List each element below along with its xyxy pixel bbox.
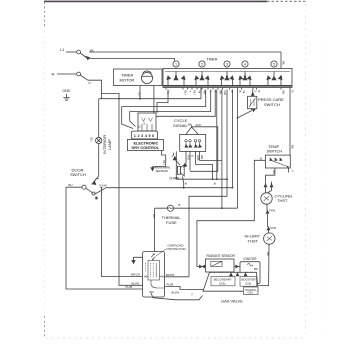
gas valve connector arrows [230,273,247,276]
svg-text:BU: BU [137,93,141,97]
svg-text:LAMP: LAMP [107,139,112,150]
svg-text:RADIANT SENSOR: RADIANT SENSOR [207,254,236,258]
ELECTRONIC DRY CONTROL box [127,140,163,151]
moisture sensor arrow [152,167,154,169]
chime switch blade [174,159,180,166]
svg-text:ACK: ACK [196,123,202,127]
N switch blade [80,75,88,80]
svg-text:BK: BK [218,91,222,95]
svg-text:SIGNAL: SIGNAL [173,123,188,128]
door switch NO contact arrow up [92,181,96,185]
svg-text:5M: 5M [150,290,155,294]
wire motor right lead y276.8 to x189 [165,276,190,278]
node L1 input wire [66,51,77,53]
timer contact group 3 [221,72,234,86]
svg-text:BU/W: BU/W [172,290,180,294]
svg-text:ELECTRONIC: ELECTRONIC [134,141,159,145]
svg-text:4M: 4M [161,277,164,279]
timer terminal circle 1 [173,61,179,67]
wire radiant sensor left lead with connectors [197,266,206,268]
wire lamp drop x98.7 [95,99,99,181]
svg-text:N: N [89,81,91,85]
svg-text:CHIME: CHIME [169,177,180,181]
chime speaker symbol [177,166,180,174]
svg-text:COIL: COIL [248,292,254,295]
svg-text:BK: BK [254,267,258,271]
svg-text:BK: BK [281,91,285,95]
svg-text:THST: THST [277,198,288,203]
cycle signal contacts inside [185,140,202,148]
svg-text:BU: BU [69,183,73,187]
wire L1 drop to timer contact 5 [280,52,282,74]
wire neutral vertical x101.5 upper stub [101,94,103,100]
wire press care bottom to x237.5 [238,109,253,118]
timer terminal circle 2 [199,61,205,67]
junction x119 on N rail [118,98,120,100]
timer contact group 1 [167,72,185,86]
wire cycling to hi-limit [267,204,269,233]
wire lower contact to y187.7 [95,188,106,194]
svg-text:OR: OR [200,155,204,159]
svg-text:PROTECTOR: PROTECTOR [168,247,186,251]
timer contact assembly box [163,69,292,88]
svg-text:DRY CONTROL: DRY CONTROL [132,146,160,150]
gas valve coil assembly outline [203,272,258,291]
wire radiant sensor right to igniter [234,266,240,268]
wire L1 lower throw y58 to timer terminal 1 [90,59,175,61]
igniter box [240,262,260,284]
svg-text:GY/W: GY/W [99,184,107,188]
border frame artifacts (scan edges) [44,1,321,338]
L1 switch terminal [77,50,81,54]
svg-text:BR: BR [272,170,276,174]
wire fuse drop to motor [154,208,156,251]
cycle signal switch box [180,134,206,151]
TIMER MOTOR box [114,69,162,86]
svg-text:BU: BU [90,138,94,142]
ground GND symbol [63,94,69,101]
wire vertical x237.5 from bus to thermal fuse line [237,90,239,209]
cycle lead labels [186,155,204,161]
svg-text:1: 1 [175,62,177,66]
svg-text:W/B: W/B [196,155,200,161]
svg-text:SWITCH: SWITCH [70,172,86,177]
wire rail to timer bus stub x192 [200,88,202,99]
wire cycle lead joins loop [196,165,213,180]
wire vertical x232.5 from bus [232,90,234,188]
svg-text:IGNITER: IGNITER [244,257,258,261]
lamp interior lamp symbol [96,137,102,143]
svg-text:B: B [260,156,262,160]
wire chime tap from EDC area [173,153,175,156]
svg-text:BU: BU [192,91,196,95]
radiant sensor inner element [211,261,222,266]
wire N staircase to left rail [88,80,119,99]
svg-text:BK: BK [282,61,286,65]
chime lead arrowhead [184,163,187,166]
svg-text:SWITCH: SWITCH [264,102,280,107]
svg-text:V: V [213,91,217,93]
svg-text:B: B [290,91,294,93]
terminal strip 1 2 3 4 5 6 [131,131,157,139]
timer contact group 4 [239,72,251,86]
svg-text:GAS VALVE: GAS VALVE [221,299,243,304]
wire bus stub x168 to connector [157,90,168,114]
svg-text:BK: BK [266,252,270,256]
wire hook into EDC connector from x121.7 [122,107,133,129]
svg-text:SWITCH: SWITCH [267,149,283,154]
L1 switch arrowhead [86,57,89,60]
motor 5M lead curve [151,280,165,288]
timer contact group 2 [195,72,209,86]
wire long vertical x119 to motor [119,99,143,286]
timer terminal circle 3 [224,61,230,67]
wire vertical x221.9 from bus to fuse line [221,90,223,209]
junction x101.5 on y187.7 [101,187,103,189]
wire door switch common left and down x66 [66,187,143,289]
svg-text:MOTOR: MOTOR [120,78,135,83]
junction lamp rail x140 [139,98,141,100]
wire cycle signal leads below box [186,151,200,170]
wire motor left lead y276.5 from x101.5 [102,188,143,277]
wire cycle loop right side [190,127,218,172]
junction chime stub [183,187,185,189]
wire EDC output BU drop [153,151,166,167]
EDC connector box [138,113,156,131]
L1 switch blade [80,53,87,59]
press care switch box [248,96,257,108]
timer top rail [165,71,290,73]
svg-text:5: 5 [273,62,275,66]
temp switch box [265,155,290,168]
timer contact group 5 [267,72,282,86]
wire temp switch bottom stub left [266,168,275,184]
svg-text:BR/CH: BR/CH [131,273,140,277]
node N input wire [57,73,77,75]
svg-text:BK: BK [291,145,295,149]
timer terminal circle 4 [242,61,248,67]
overload protector leader line [156,249,167,257]
wire temp switch bottom stub right [288,168,290,173]
svg-text:BK/PK: BK/PK [166,273,175,277]
svg-text:BU: BU [152,214,156,218]
svg-text:P/W: P/W [270,209,276,213]
svg-text:B: B [96,196,98,200]
svg-text:COIL: COIL [245,281,252,285]
svg-text:SENSOR: SENSOR [156,169,168,173]
svg-text:BU/W: BU/W [132,281,140,285]
svg-text:OR: OR [223,91,227,95]
svg-text:COIL: COIL [219,281,226,285]
junction y187.7 x237.5 [232,187,234,189]
cycling thermostat symbol [261,193,272,204]
svg-text:B: B [230,91,234,93]
svg-text:1 2 3 4 5 6: 1 2 3 4 5 6 [134,134,155,138]
radiant sensor outer box [206,259,235,272]
hi-limit thermostat symbol [264,233,275,244]
holding coil box [244,287,259,295]
wire motor right lead y286.4 to gas valve [165,286,205,289]
svg-text:B: B [257,91,261,93]
svg-text:BU: BU [183,91,187,95]
wire door switch NO to long wire [97,178,99,180]
junction y179.2 end x229.6 [226,178,228,180]
wire hook into EDC connector from x129.7 [130,112,136,127]
wire x290 bus to temp switch [289,90,291,156]
N switch terminal [77,72,81,76]
svg-text:B: B [185,182,187,186]
wire bundle horizontal y106.5 [122,90,206,107]
svg-text:P/W: P/W [271,226,277,230]
svg-text:B: B [179,203,181,207]
wire cycle lead right y160.5 [200,160,222,162]
connector arrows between thermostats [266,211,270,230]
wire timer motor lead to EDC connector [153,86,155,113]
svg-text:L1: L1 [60,47,65,52]
motor ground branch [134,257,143,260]
temp switch contacts [270,158,289,168]
wire cycle outer left edge to y179.2 [175,151,177,179]
cycle signal selector apex [186,127,198,134]
wire thermal fuse line [155,207,238,209]
svg-text:THST: THST [248,238,259,243]
junction x221.9 fuse line [221,207,223,209]
wire vertical x216.5 from bus [216,90,218,180]
junction press care on x237.5 [237,117,239,119]
wire L1 top rail y52 [89,51,281,53]
svg-text:FUSE: FUSE [166,220,177,225]
svg-text:Y: Y [291,170,295,172]
igniter element [247,264,253,266]
wire long horizontal y187.7 door switch feed [106,187,233,189]
svg-text:4: 4 [244,62,246,66]
svg-text:PU/B: PU/B [126,285,133,289]
connector arrows cycling feed [264,184,273,187]
thermal fuse symbol [167,205,173,211]
overload protector symbol [153,253,155,255]
svg-text:T: T [188,91,192,93]
svg-text:12: 12 [138,125,142,129]
wire temp switch left lead [197,160,266,266]
motor TIMER MOTOR symbol [141,72,152,83]
motor centrifugal switch inner box [148,261,160,281]
svg-text:2: 2 [201,62,203,66]
wire press care top to bus [252,90,254,97]
wire vertical x229.6 from bus down to step [189,90,227,277]
svg-text:B: B [214,182,216,186]
svg-text:GND: GND [63,89,71,93]
timer terminal circle 5 [271,61,277,67]
secondary coil box [211,277,235,286]
door switch lower contact [92,192,95,195]
door switch common terminal [82,185,86,189]
motor box [143,252,165,298]
door switch blade [86,188,93,193]
wire N rail y98.7 (lamp feed) [99,98,201,100]
svg-text:TIMER: TIMER [207,57,218,61]
junction y179.2 x212.5 [212,178,214,180]
wire hi-limit down to gas valve [258,244,269,285]
svg-text:BR: BR [202,91,206,95]
motor winding marks [145,263,161,278]
svg-text:W: W [197,91,201,94]
junction y179.2 x216.5 [216,178,218,180]
wire y179.2 horizontal [176,178,227,180]
wire bundle horizontal y116.3 [152,90,215,117]
booster coil box [240,277,257,287]
svg-text:PU/B: PU/B [167,282,174,286]
svg-text:BK: BK [188,123,192,127]
svg-text:BU: BU [162,161,166,165]
svg-text:W: W [242,91,246,94]
timer bus wire labels [137,61,294,97]
svg-text:Y: Y [191,293,193,297]
svg-text:3M: 3M [144,277,147,279]
svg-text:P/G: P/G [186,155,190,161]
timer bus stubs with terminals below [166,88,290,90]
svg-text:BK: BK [90,49,94,53]
svg-text:3: 3 [226,62,228,66]
wire motor bottom lead to gas valve bottom [151,293,203,300]
svg-text:N: N [52,72,55,77]
svg-text:Y: Y [208,91,212,93]
EDC connector pins [142,118,153,122]
svg-text:B: B [238,91,242,93]
wire chime bottom stub to y187.7 [183,177,184,188]
wire timer motor lead BU [139,86,141,99]
timer bus bar [163,85,292,87]
wire bundle horizontal y111.5 [130,90,211,112]
